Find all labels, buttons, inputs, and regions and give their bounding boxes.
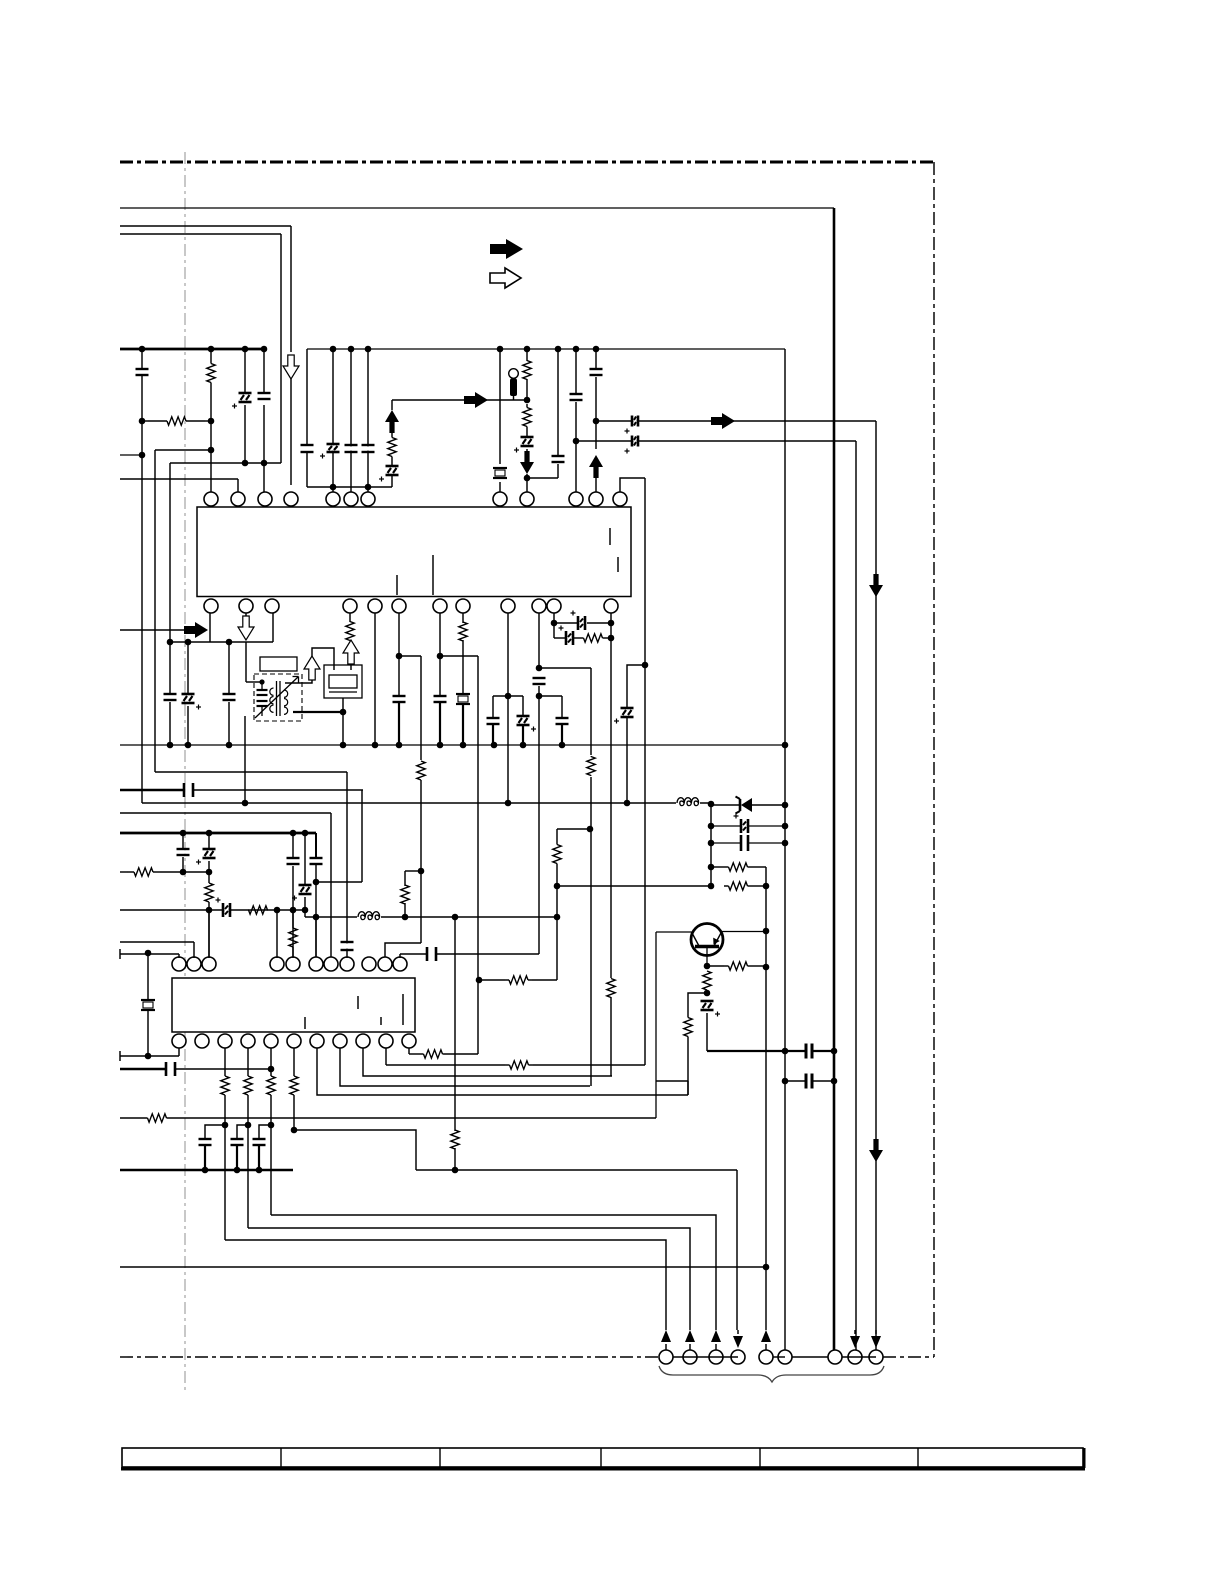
wire U2 pin2 feed (120, 941, 194, 943)
node x271-1069 (268, 1066, 275, 1073)
IC U1 bottom pin 21 (501, 599, 515, 613)
ground bus y1170 thick (120, 1169, 293, 1172)
wire x627 top corner (627, 665, 645, 708)
node pin1-450 (208, 447, 215, 454)
node x590-829 (587, 826, 594, 833)
wire x316 corner drop (315, 833, 317, 858)
wire U2 pin3 feed (208, 910, 210, 958)
wire pin23 drop (553, 613, 555, 638)
wire U2 pin21 feed y1065 (385, 1048, 387, 1065)
resistor R10 line (120, 871, 127, 873)
node x245-803 (242, 800, 249, 807)
node y843 x785 (782, 840, 789, 847)
IC U1 top pin 8 (493, 492, 507, 506)
wire y1267 feeder (120, 1266, 766, 1268)
IC U1 bottom pin 16 (343, 599, 357, 613)
wire arrow to pin4 (290, 379, 292, 485)
supply bus right thin (307, 348, 785, 350)
signal arrow up x596 (589, 455, 603, 478)
connector link 835-876 (842, 1356, 876, 1358)
node bus1170 x259 (256, 1167, 263, 1174)
zener diode D1 (711, 804, 740, 806)
IC U1 top pin 6 (344, 492, 358, 506)
wire x766 vertical (765, 867, 767, 1330)
node x225-1125 (222, 1122, 229, 1129)
IC U2 top pin 2 (187, 957, 201, 971)
node y910 x305 (302, 907, 309, 914)
connector pin x716 (711, 1330, 721, 1342)
signal flow open arrow down to IC1 pin4 (283, 355, 299, 379)
wire Q1 collector left (656, 931, 692, 933)
connector link 666-738 (673, 1356, 738, 1358)
wire y1228 feeder (248, 1228, 690, 1330)
node x209-872 (206, 869, 213, 876)
node T1 cap top (259, 679, 264, 684)
wire link 527-558 (527, 477, 558, 479)
node x711-867 (708, 864, 715, 871)
node Q1 base node (704, 963, 711, 970)
ground bus y745 (120, 744, 785, 746)
electrolytic C4 (521, 438, 534, 444)
capacitor C29 series (711, 842, 740, 844)
IC U2 body (172, 978, 415, 1032)
wire cap col x493 (492, 696, 494, 717)
node R3-R4 (524, 397, 531, 404)
node x707-993 (704, 990, 711, 997)
electrolytic C9 series (633, 436, 636, 447)
signal arrow to pin13 (184, 622, 208, 638)
node bus349 x596 (593, 346, 600, 353)
wire pin14 stub (245, 613, 247, 616)
wire y696 link B (539, 695, 562, 697)
wire T1 left drop (244, 716, 246, 802)
wire rail 3 drop (280, 234, 282, 463)
resistor R12 series (247, 909, 250, 911)
IC U1 top pin 3 (258, 492, 272, 506)
node x148-1056 (145, 1053, 152, 1060)
wire pin17 drop (374, 613, 376, 745)
wire x645 long vertical (644, 478, 646, 1065)
IC U1 top pin 4 (284, 492, 298, 506)
IC U1 bottom pin 19 (433, 599, 447, 613)
wire pin14 into transformer (245, 642, 247, 682)
wire y813 (120, 812, 331, 814)
node y833 x209 (206, 830, 213, 837)
wire output line y421 (596, 420, 876, 422)
node y1051 x834 (831, 1048, 838, 1055)
node C2 bottom (242, 460, 249, 467)
resistor R27 (391, 436, 393, 438)
node x766-1267 (763, 1264, 770, 1271)
wire left stub y1056 (119, 1051, 121, 1061)
capacitor C16 (487, 719, 500, 722)
IC U1 bottom pin 23 (547, 599, 561, 613)
resistor R22 (247, 1048, 249, 1076)
wire y1069 thick (120, 1068, 166, 1071)
IC U2 top pin 7 (324, 957, 338, 971)
IC U2 bottom pin 14 (218, 1034, 232, 1048)
transformer T1 tuning caps (261, 682, 263, 690)
wire R13 top link (405, 870, 421, 872)
node x557-916 (554, 914, 561, 921)
capacitor C43 (345, 446, 358, 450)
node y826 x785 (782, 823, 789, 830)
IC U1 body (197, 507, 631, 597)
node x271-1125 (268, 1122, 275, 1129)
resistor R4 (526, 404, 528, 408)
node y696 x508 (505, 693, 512, 700)
wire rail 3 (120, 233, 281, 235)
resistor R9 on x611 (605, 978, 617, 998)
resistor R26 (409, 1053, 422, 1055)
electrolytic C17 (522, 696, 524, 716)
electrolytic C27 series (224, 903, 228, 917)
wire U2 pin5 feed with resistor (292, 910, 294, 925)
node stub455 (139, 452, 146, 459)
transistor Q1 (691, 924, 723, 956)
wire x737 drop (736, 1170, 738, 1330)
node x209-910 (206, 907, 213, 914)
node y917 x455 (452, 914, 459, 921)
node x421-871 (418, 868, 425, 875)
page border dash-dot top (120, 161, 934, 164)
wire y441 drop x856 (855, 441, 857, 1350)
node x711 top (708, 801, 715, 808)
IC U1 top pin 10 (569, 492, 583, 506)
IC U2 top pin 9 (362, 957, 376, 971)
node bus-C245 (242, 346, 249, 353)
capacitor C33 (346, 942, 348, 958)
node C7-421 (593, 418, 600, 425)
signal flow open arrow up into VCO (304, 656, 320, 680)
wire x591 vertical (590, 668, 592, 1086)
wire pin6 drop (350, 349, 352, 492)
wire pin620 wrap (620, 478, 645, 492)
node bus349 x333 (330, 346, 337, 353)
signal arrow on y421 (711, 413, 735, 429)
resistor R11 (205, 883, 213, 902)
node y833 x293 (290, 830, 297, 837)
wire U2 pin4 feed (276, 910, 278, 958)
wire Q1 base down (706, 948, 708, 966)
node bus745 x343 (340, 742, 347, 749)
connector link 785-835 (792, 1356, 828, 1358)
node bus349 x368 (365, 346, 372, 353)
supply bus thick left (120, 348, 265, 351)
IC U1 bottom pin 20 (456, 599, 470, 613)
wire resistor line y1118 (120, 1117, 147, 1119)
transformer T1 secondary winding (284, 690, 288, 697)
node y917 x405 (402, 914, 409, 921)
node x527-478 (524, 475, 531, 482)
black arrow chain x392 (391, 476, 393, 487)
IC U1 top pin 5 (326, 492, 340, 506)
node x611-638 (608, 635, 615, 642)
node rail x170 (167, 639, 174, 646)
node bus1170 x237 (234, 1167, 241, 1174)
node y1051 x785 (782, 1048, 789, 1055)
wire pin19 drop (439, 613, 441, 696)
wire arrow line y630 (120, 629, 186, 631)
resistor R20 (687, 1015, 689, 1018)
wire x557 drop (556, 886, 558, 980)
signal arrow into R3 (464, 392, 488, 408)
wire bus drop x785 long (784, 349, 786, 1350)
node x148-953 (145, 950, 152, 957)
wire U2 pin19 feed y1086 (340, 1048, 590, 1086)
node vco ground (340, 709, 347, 716)
capacitor C15 (533, 679, 546, 682)
wire vco left stub (312, 648, 334, 670)
node x766-886 (763, 883, 770, 890)
IC U2 top pin 10 (378, 957, 392, 971)
node bus745 x229 (226, 742, 233, 749)
wire rail 2 drop (290, 226, 292, 352)
wire U2 pin18 feed y1095 (317, 1048, 688, 1095)
IC U1 top pin 9 (520, 492, 534, 506)
wire pin20 drop (462, 613, 464, 623)
node x557-886 (554, 883, 561, 890)
node bus349 x527 (524, 346, 531, 353)
electrolytic C41 (386, 467, 399, 473)
wire T1 secondary to VCO arrow (285, 680, 312, 683)
IC U1 top pin 2 (231, 492, 245, 506)
wire pin24 drop x611 (610, 613, 612, 980)
capacitor C6 (575, 349, 577, 394)
capacitor C40 (301, 446, 314, 450)
IC U2 bottom pin 19 (333, 1034, 347, 1048)
connector pin x738 (733, 1336, 743, 1348)
capacitor C1 (141, 349, 143, 369)
signal arrow down x876 lower (869, 1139, 883, 1162)
IC U2 bottom pin 18 (310, 1034, 324, 1048)
node x611-623 (608, 620, 615, 627)
capacitor C3 (263, 349, 265, 393)
wire rail 2 (120, 225, 291, 227)
wire y696 link A (493, 695, 523, 697)
node rail x188 (185, 639, 192, 646)
wire y886 long link (557, 885, 711, 887)
IC U1 top pin 1 (204, 492, 218, 506)
inductor L2 (357, 909, 381, 918)
wire branch to x591 (539, 667, 591, 669)
node bus745 x375 (372, 742, 379, 749)
IC U2 bottom pin 12 (172, 1034, 186, 1048)
node bus349 x351 (348, 346, 355, 353)
supply bus y833 thick (120, 832, 316, 835)
resistor R25 (386, 1064, 505, 1066)
wire pin1 branch y450 (155, 449, 211, 451)
resistor R13 (404, 871, 406, 886)
resistor R8 (574, 637, 580, 639)
signal flow open arrow down pin14 (238, 616, 254, 640)
capacitor C37 (237, 1125, 248, 1139)
wire y790 thick (120, 789, 184, 792)
wire y790 thin (193, 789, 363, 791)
node x711-826 (708, 823, 715, 830)
capacitor C38 (259, 1125, 271, 1139)
capacitor C44 (362, 446, 375, 450)
capacitor C14 (434, 697, 447, 700)
node bus-R211 (208, 346, 215, 353)
IC U2 top pin 4 (270, 957, 284, 971)
wire y954 link (400, 953, 427, 955)
node pin23-623 (551, 620, 558, 627)
capacitor C32 series (785, 1080, 806, 1082)
resistor R3 (526, 349, 528, 361)
wire bus right vertical drop (833, 208, 836, 1350)
node bus745 x562 (559, 742, 566, 749)
capacitor C22 (182, 833, 184, 849)
capacitor C18 (561, 696, 563, 717)
wire x347 drop (346, 772, 348, 942)
wire Q1 emitter right (722, 931, 766, 933)
IC U1 internal divider marks (396, 575, 398, 595)
IC U1 bottom pin 15 (265, 599, 279, 613)
wire x362 drop (361, 790, 363, 882)
node bus349 x558 (555, 346, 562, 353)
node bus745 x463 (460, 742, 467, 749)
node bus-C264 (261, 346, 268, 353)
electrolytic C2 (244, 349, 246, 393)
wire branch to x421 (399, 655, 421, 657)
connector pin x766 (761, 1330, 771, 1342)
electrolytic C39 (621, 709, 634, 715)
wire y910 (120, 909, 305, 911)
label box (260, 657, 297, 671)
signal arrow down C4 (526, 449, 528, 453)
node bus349 x500 (497, 346, 504, 353)
connector pin x835 (828, 1350, 842, 1364)
node bus745 x440 (437, 742, 444, 749)
capacitor C21 series (185, 783, 191, 797)
ceramic resonator X2 (456, 693, 470, 695)
node y487 x333 (330, 484, 337, 491)
wire x711 vertical (710, 804, 712, 886)
wire U2 pin11 feed (399, 954, 401, 958)
wire input arrow line y400 (392, 399, 527, 401)
IC U1 bottom pin 13 (204, 599, 218, 613)
wire Q1 collector drop (655, 932, 657, 1118)
IC U1 bottom pin 17 (368, 599, 382, 613)
connector pin x785 (778, 1350, 792, 1364)
IC U1 top pin 11 (589, 492, 603, 506)
wire top rail (120, 207, 834, 209)
IC U2 top pin 1 (172, 957, 186, 971)
wire y1170 feeder (416, 1169, 737, 1171)
wire pin13 drop (209, 613, 211, 642)
node bus745 x785 (782, 742, 789, 749)
inductor L1 (676, 795, 700, 804)
wire jog x294 to x416 (294, 1130, 416, 1170)
connector pin x666 (661, 1330, 671, 1342)
node x455-1170 (452, 1167, 459, 1174)
wire T1 bottom link thick (293, 711, 343, 713)
wire pin22 drop x539 (538, 613, 540, 668)
node bus745 x494 (491, 742, 498, 749)
IC U2 bottom pin 22 (402, 1034, 416, 1048)
node y833 x183 (180, 830, 187, 837)
node x711-886b (708, 883, 715, 890)
node bus745 x399 (396, 742, 403, 749)
connector pin x690 (685, 1330, 695, 1342)
signal arrow down x876 upper (869, 574, 883, 597)
electrolytic C20 series (554, 637, 565, 639)
wire x421 to U2 pin10 (385, 943, 421, 958)
node C6-441 (573, 438, 580, 445)
capacitor C34 series (428, 947, 434, 961)
wire shunt top (557, 828, 590, 830)
electrolytic C28 series (711, 825, 740, 827)
node rail x229 (226, 639, 233, 646)
wire pin2 drop (237, 479, 239, 492)
transformer T1 primary winding (270, 688, 274, 695)
wire U2 pin20 feed y1076 (363, 1048, 612, 1076)
wire vco right stub (350, 664, 352, 670)
wire x331 drop to U2 pin7 (330, 813, 332, 958)
IC U2 bottom pin 21 (379, 1034, 393, 1048)
node C3 bottom (261, 460, 268, 467)
node y910 x277 (274, 907, 281, 914)
IC U2 bottom pin 13 (195, 1034, 209, 1048)
wire x612 riser (610, 997, 612, 1076)
node y833 x305 (302, 830, 309, 837)
resistor R1 (210, 349, 212, 362)
signal flow open arrow up to R5 (343, 640, 359, 664)
IC U1 bottom pin 18 (392, 599, 406, 613)
legend signal arrow solid (490, 239, 523, 259)
node x539-696 (536, 693, 543, 700)
wire y1215 feeder (271, 1215, 716, 1330)
node x645-665 (642, 662, 649, 669)
node y1081 x834 (831, 1078, 838, 1085)
wire y917 (305, 916, 557, 918)
wire C31 to bus (812, 1050, 834, 1052)
IC U1 bottom pin 14 (239, 599, 253, 613)
node y803 x785 (782, 802, 789, 809)
wire x170 drop (169, 463, 171, 642)
page border dash-dot right (933, 162, 935, 1357)
IC U2 top pin 8 (340, 957, 354, 971)
wire y1069 thin (175, 1068, 271, 1070)
VCO box (324, 665, 362, 698)
node y487 x368 (365, 484, 372, 491)
wire bus corner column x307 (306, 349, 308, 445)
electrolytic C19 series (554, 622, 577, 624)
wire pin5 drop (332, 349, 334, 492)
wire x421 vertical (420, 656, 422, 943)
wire vco ground drop (342, 698, 344, 745)
wire U2 pin22 feed y1054 (408, 1048, 410, 1054)
resistor R14 on x455 (451, 1130, 459, 1149)
node x248-1125 (245, 1122, 252, 1129)
node bus745 x188 (185, 742, 192, 749)
node x293-910 (290, 907, 297, 914)
capacitor C13 (393, 697, 406, 700)
thermistor TH1 body (509, 369, 519, 379)
node bus745 x523 (520, 742, 527, 749)
resistor R18 (707, 965, 724, 967)
connector pin x876 (871, 1336, 881, 1348)
node R1-R2 (139, 418, 146, 425)
ground rail y642 (169, 641, 273, 643)
node y1081 x785 (782, 1078, 789, 1085)
wire x225 drop (224, 1125, 226, 1240)
page border dash-dot bottom left segment (120, 1356, 659, 1358)
node x766-967 (763, 964, 770, 971)
IC U2 top pin 3 (202, 957, 216, 971)
wire collector stub (656, 1080, 688, 1082)
